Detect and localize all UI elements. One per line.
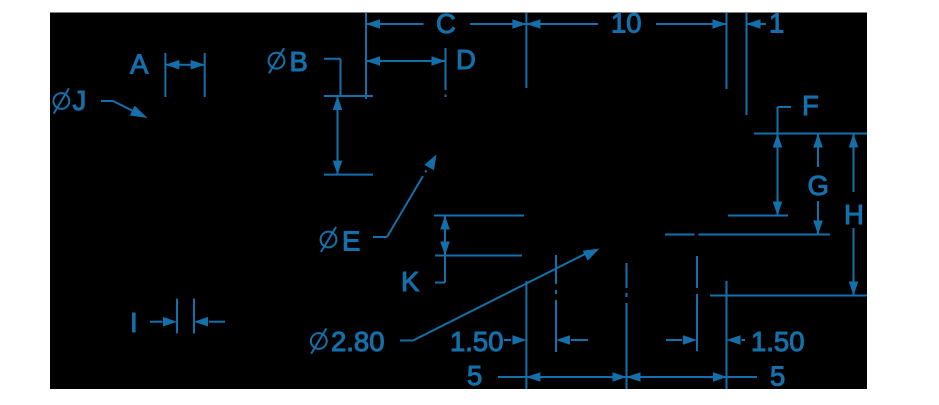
svg-text:D: D bbox=[456, 44, 476, 75]
svg-text:A: A bbox=[130, 49, 149, 80]
svg-text:G: G bbox=[808, 170, 829, 201]
svg-text:C: C bbox=[436, 8, 456, 39]
svg-text:1: 1 bbox=[769, 8, 784, 39]
svg-text:B: B bbox=[290, 46, 308, 77]
svg-text:10: 10 bbox=[611, 8, 642, 39]
svg-text:K: K bbox=[401, 266, 420, 297]
svg-text:I: I bbox=[130, 307, 138, 338]
svg-text:H: H bbox=[844, 199, 864, 230]
svg-text:J: J bbox=[73, 85, 87, 116]
svg-text:5: 5 bbox=[770, 361, 785, 392]
svg-text:1.50: 1.50 bbox=[751, 326, 805, 357]
svg-text:E: E bbox=[342, 226, 360, 257]
svg-text:2.80: 2.80 bbox=[331, 326, 385, 357]
svg-text:F: F bbox=[802, 90, 819, 121]
svg-text:1.50: 1.50 bbox=[450, 326, 504, 357]
svg-text:5: 5 bbox=[467, 360, 482, 391]
